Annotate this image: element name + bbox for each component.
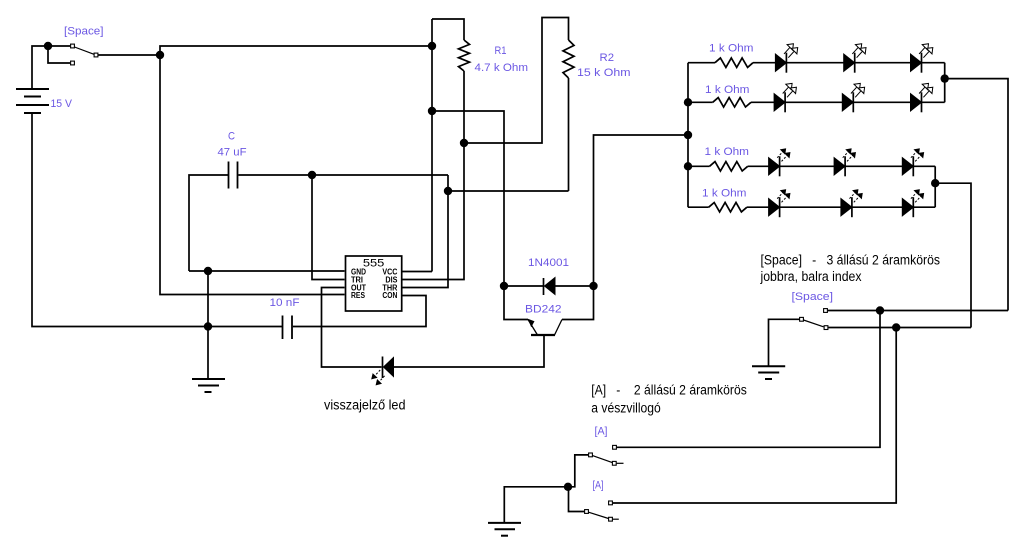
wire node A to switch contacts: [48, 46, 70, 63]
wire to switch A1: [617, 311, 880, 448]
node row2 junction: [684, 98, 692, 106]
wire LED D2 to Q1 base: [394, 335, 545, 367]
label [A] for S4: [593, 480, 604, 492]
svg-text:1 k Ohm: 1 k Ohm: [702, 188, 747, 200]
LED D8 row2: [911, 83, 933, 112]
node THR junction: [444, 187, 452, 195]
node feed junction: [684, 131, 692, 139]
LED D7 row2: [842, 83, 864, 112]
wire 47uF left lead: [189, 175, 228, 271]
svg-text:C: C: [228, 131, 235, 143]
svg-text:15 k Ohm: 15 k Ohm: [577, 67, 631, 79]
note line 2: [760, 269, 862, 284]
resistor R6 1 k Ohm: [709, 203, 747, 212]
svg-text:CON: CON: [382, 291, 397, 300]
svg-text:47 uF: 47 uF: [218, 147, 247, 159]
label 15 k Ohm: [577, 67, 631, 79]
wire to switch A2: [613, 328, 896, 504]
svg-text:R1: R1: [495, 45, 507, 57]
wire row2: [688, 101, 945, 103]
node ground junction (10nF row): [204, 322, 212, 330]
svg-text:[Space]: [Space]: [792, 291, 834, 303]
label 1 k Ohm row3: [705, 146, 750, 158]
wire THR node corner: [447, 175, 449, 191]
LED D5 row1: [911, 44, 933, 73]
label [Space] for S1: [64, 26, 104, 38]
svg-text:jobbra, balra index: jobbra, balra index: [760, 269, 862, 284]
switch S1 [Space] top-left: [71, 44, 98, 65]
svg-text:1 k Ohm: 1 k Ohm: [705, 84, 750, 96]
wire DIS node to R2 top: [464, 18, 569, 144]
capacitor C2 10 nF: [283, 316, 293, 340]
node rows3-4 output junction: [931, 179, 939, 187]
label C: [228, 131, 235, 143]
svg-text:1 k Ohm: 1 k Ohm: [705, 146, 750, 158]
wire row3: [688, 165, 935, 167]
wire battery+ to node A: [32, 46, 46, 89]
wire THR node to R2 bottom: [448, 190, 569, 192]
wire diode left lead: [504, 285, 543, 287]
svg-text:555: 555: [363, 258, 385, 270]
wire collector rail: [432, 111, 504, 285]
node TRI branch junction: [308, 171, 316, 179]
wire battery- down and right to ground node: [32, 113, 282, 327]
node A junction: [44, 42, 52, 50]
svg-text:1 k Ohm: 1 k Ohm: [709, 43, 754, 55]
resistor R3 1 k Ohm: [715, 58, 753, 67]
node row3 junction: [684, 162, 692, 170]
wire THR pin drop: [402, 191, 448, 288]
svg-text:[A] - 2 állású 2 áramkörö: [A] - 2 állású 2 áramkörös: [591, 382, 747, 397]
wire ground node to GND3: [504, 487, 568, 523]
capacitor C1 47 uF: [229, 162, 238, 189]
op-amp U1 555 timer box: [346, 256, 402, 311]
ground GND1: [192, 379, 225, 392]
wire +V rail vertical: [402, 19, 432, 272]
wire S2 pole to ground: [769, 319, 800, 366]
LED D13 row4: [841, 190, 862, 218]
label [A] for S3: [595, 426, 608, 438]
node rail-collector junction: [428, 107, 436, 115]
LED D11 row3: [902, 149, 923, 177]
node R1-R2 junction (DIS): [460, 139, 468, 147]
LED D2 visszajelzo (points left): [383, 357, 394, 379]
svg-text:4.7 k Ohm: 4.7 k Ohm: [475, 62, 529, 74]
switch S3 [A]: [589, 445, 624, 465]
wire rows3-4 right rail: [934, 166, 936, 207]
node S2-A2 junction: [892, 323, 900, 331]
wire S2 top contact row: [828, 310, 1008, 312]
LED D10 row3: [834, 149, 855, 177]
LED D6 row2: [774, 83, 796, 112]
wire Q1 collector to LED bank feed: [594, 135, 688, 286]
note line 1: [761, 252, 941, 267]
svg-text:R2: R2: [600, 52, 615, 64]
note line 3: [591, 382, 747, 397]
node rail-switch junction: [428, 42, 436, 50]
svg-text:[Space]: [Space]: [64, 26, 104, 38]
label BD242: [525, 304, 562, 316]
wire 10nF to CON pin: [293, 296, 426, 327]
node diode right junction: [589, 282, 597, 290]
wire S2 bottom contact row: [828, 327, 971, 329]
ground GND2: [752, 366, 785, 379]
label 4.7 k Ohm: [475, 62, 529, 74]
label 15 V: [51, 98, 73, 110]
svg-text:BD242: BD242: [525, 304, 562, 316]
ground GND3: [488, 523, 521, 536]
node switches-A ground junction: [564, 483, 572, 491]
node diode left junction: [500, 282, 508, 290]
wire S3 pole to ground node: [568, 455, 588, 487]
wire rows1-2 right rail: [944, 63, 946, 103]
svg-text:[Space] - 3 állású 2 áramk: [Space] - 3 állású 2 áramkörös: [761, 252, 941, 267]
wire 47uF right to THR node: [238, 174, 448, 176]
wire bank1 output to switch row: [945, 79, 1008, 311]
wire node B down to RES pin: [160, 55, 345, 295]
LED D4 row1: [844, 44, 866, 73]
diode D1 1N4001 (points left): [544, 278, 593, 296]
wire GND pin row: [189, 270, 345, 272]
node S2-A1 junction: [876, 306, 884, 314]
resistor R1 (4.7k): [402, 19, 470, 280]
svg-text:1N4001: 1N4001: [528, 257, 569, 269]
label 1 k Ohm row4: [702, 188, 747, 200]
wire row1: [688, 62, 945, 64]
wire ground stem: [207, 271, 209, 379]
wire S1 pole to node B: [98, 54, 160, 56]
battery B1 (15 V): [16, 89, 49, 113]
label 1 k Ohm row1: [709, 43, 754, 55]
node B junction: [156, 51, 164, 59]
svg-text:10 nF: 10 nF: [270, 297, 300, 309]
LED D3 row1: [775, 44, 797, 73]
svg-text:a vészvillogó: a vészvillogó: [591, 400, 661, 415]
resistor R5 1 k Ohm: [710, 162, 748, 171]
wire LED-bank left rail: [687, 63, 689, 208]
svg-text:[A]: [A]: [593, 480, 604, 492]
LED D12 row4: [769, 190, 790, 218]
wire bank2 output down: [935, 183, 971, 327]
LED D14 row4: [902, 190, 923, 218]
wire row4: [688, 206, 935, 208]
node GND-pin junction: [204, 267, 212, 275]
resistor R2 (15k): [563, 40, 574, 191]
svg-text:[A]: [A]: [595, 426, 608, 438]
label [Space] for S2: [792, 291, 834, 303]
label 47 uF: [218, 147, 247, 159]
svg-text:RES: RES: [351, 291, 366, 300]
switch S4 [A]: [585, 501, 619, 521]
label visszajelzo led: [324, 398, 406, 413]
label R1: [495, 45, 507, 57]
wire node B up to +V rail: [160, 46, 431, 55]
wire S4 pole to ground node: [569, 487, 585, 512]
node rows1-2 output junction: [941, 74, 949, 82]
transistor Q1 BD242 (PNP): [504, 286, 594, 335]
label R2: [600, 52, 615, 64]
svg-text:visszajelző led: visszajelző led: [324, 398, 406, 413]
LED D2 emission arrows: [372, 370, 385, 385]
LED D9 row3: [769, 149, 790, 177]
note line 4: [591, 400, 661, 415]
wire OUT pin drop: [322, 288, 382, 368]
switch S2 [Space] selector: [800, 309, 828, 330]
label 1N4001: [528, 257, 569, 269]
svg-text:15 V: 15 V: [51, 98, 73, 110]
resistor R4 1 k Ohm: [713, 98, 751, 107]
wire TRI pin drop: [312, 175, 345, 280]
label 10 nF: [270, 297, 300, 309]
label 1 k Ohm row2: [705, 84, 750, 96]
